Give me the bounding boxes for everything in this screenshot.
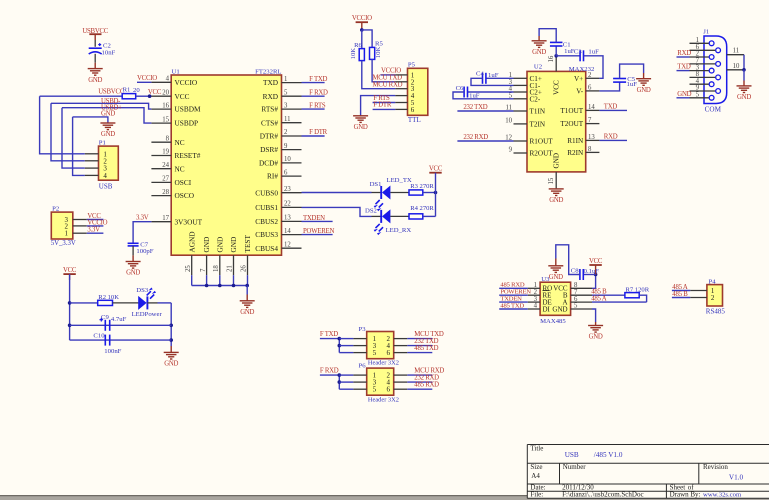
P2 pin 1 3.3V [73,232,87,234]
svg-text:C10: C10 [93,333,105,340]
U3 pin 6 A [571,301,592,303]
svg-text:6: 6 [387,349,391,357]
svg-text:10: 10 [505,117,512,124]
svg-text:7: 7 [200,268,207,272]
U1 pin 21 GND [233,255,235,275]
svg-text:2: 2 [284,129,288,136]
svg-text:C4: C4 [476,71,484,78]
svg-text:USBDP: USBDP [175,119,199,128]
ground [636,79,651,86]
svg-text:VCCIO: VCCIO [175,78,198,87]
svg-text:R1OUT: R1OUT [530,138,554,146]
svg-text:CBUS2: CBUS2 [255,217,278,226]
svg-text:4.7uF: 4.7uF [111,316,127,323]
U1 pin 19 RESET# [151,155,171,157]
net label VCCIO at U1 pin 4 [137,81,151,83]
svg-text:6: 6 [284,169,288,176]
net label VCCIO [87,225,104,227]
svg-text:/485 V1.0: /485 V1.0 [594,451,623,459]
svg-text:USBVCC: USBVCC [98,88,125,95]
svg-text:C9: C9 [101,314,109,321]
svg-text:RTS#: RTS# [261,105,278,114]
net label 485 TXD [499,308,528,310]
svg-text:V+: V+ [574,75,583,83]
svg-text:T1IN: T1IN [530,108,546,116]
svg-text:LED_TX: LED_TX [387,177,412,184]
svg-text:1uF: 1uF [469,92,480,99]
svg-text:R1IN: R1IN [567,137,584,145]
svg-text:VCC: VCC [553,80,561,95]
wire [390,215,409,217]
net label 232_TXD at U2 pin 11 [457,110,513,112]
svg-text:J1: J1 [703,28,709,35]
svg-text:GND: GND [532,49,546,56]
svg-text:23: 23 [284,186,291,193]
net label RXD at J1 pin 2 [677,56,690,58]
svg-text:24: 24 [162,162,169,169]
svg-text:GND: GND [552,305,567,313]
capacitor C10 100nF [105,335,109,346]
U1 pin 25 AGND [191,255,193,275]
net label F_RTS at U1 [302,108,325,110]
svg-text:10nF: 10nF [102,50,116,57]
svg-text:1: 1 [284,76,287,83]
svg-text:GND: GND [589,334,603,341]
connector P5 TTL body [408,68,428,115]
svg-text:8: 8 [166,135,170,142]
svg-text:DTR#: DTR# [260,132,279,141]
svg-text:USB: USB [565,451,579,459]
wire VCC rail to DS2 row [435,173,437,217]
J1 pin 5 [690,97,710,99]
U3 pin 1 RO [528,287,540,289]
svg-text:RXD: RXD [263,92,278,101]
P1 pin 2 [85,160,99,162]
net label 232_RXD at U2 pin 12 [457,140,513,142]
svg-text:6: 6 [588,84,592,91]
connector P3 header 3X2 body [367,332,394,359]
svg-text:Header 3X2: Header 3X2 [368,396,399,403]
U2 pin 7 T2OUT [586,123,600,125]
svg-text:GND: GND [677,91,691,98]
P6 pin 3 [339,381,353,383]
svg-text:GND: GND [202,237,211,253]
svg-text:28: 28 [162,189,169,196]
svg-text:F RXD: F RXD [320,367,339,374]
U2 pin 14 T1OUT [586,109,600,111]
U2 pin 13 R1IN [586,139,600,141]
svg-text:P6: P6 [359,363,367,370]
wire R5 to MCU_TXD row [372,59,395,81]
J1 pin 8 [690,76,716,78]
svg-text:VCC: VCC [589,258,603,265]
svg-text:13: 13 [284,215,291,222]
P3 pin 6 [394,352,408,354]
J1 pin 7 [690,63,716,65]
net label RXD at U2 pin 13 [599,139,627,141]
svg-text:8: 8 [588,146,592,153]
net label MCU TXD [407,338,432,340]
junction [148,94,152,98]
net label F_DTR at P5 pin6 [373,108,396,110]
svg-text:11: 11 [284,116,291,123]
svg-text:TTL: TTL [408,116,421,124]
U3 pin 5 GND [571,308,592,310]
svg-text:DS3: DS3 [136,287,149,294]
svg-text:www.32s.com: www.32s.com [703,492,742,499]
svg-text:GND: GND [240,309,254,316]
svg-text:CUBS1: CUBS1 [255,203,278,212]
U1 pin 14 CBUS3 [282,234,302,236]
U1 pin 24 NC [151,168,171,170]
svg-text:20: 20 [133,87,140,94]
svg-text:100nF: 100nF [104,348,121,355]
wire P1 pin4 to GND [73,117,85,175]
net label TXD at U2 pin 14 [599,109,627,111]
svg-text:16: 16 [162,102,169,109]
title block [527,445,769,499]
P5 pin 1 [395,74,407,76]
wire rail [338,375,340,389]
P2 pin 2 VCCIO [73,225,87,227]
wire U3 pin 8 to VCC [592,275,596,289]
svg-text:USBDM: USBDM [175,105,201,114]
P1 pin 3 [85,167,99,169]
P3 pin 3 [339,345,353,347]
power port VCCIO [356,21,368,23]
U1 pin 3 RTS# [282,108,302,110]
U1 pin 26 TEST [247,255,249,275]
wire to R6 [361,30,363,49]
wire U1 ground rail [191,275,193,285]
wire [423,215,436,217]
LED DS3 LEDPower [138,296,146,310]
svg-text:232 RXD: 232 RXD [463,134,488,141]
J1 pin 4 [690,83,710,85]
svg-text:GND: GND [126,270,140,277]
svg-text:R1: R1 [123,86,131,93]
svg-text:GND: GND [101,111,115,118]
power port VCC [429,172,441,174]
wire R6 to MCU_RXD row [362,61,396,89]
U3 pin 3 DE [528,301,540,303]
svg-text:17: 17 [162,215,169,222]
U1 pin 8 NC [151,141,171,143]
J1 pin 9 [690,90,716,92]
svg-text:9: 9 [509,147,513,154]
svg-text:R3 270R: R3 270R [410,183,434,190]
svg-text:File:: File: [530,491,543,499]
wire [147,302,157,304]
svg-text:DI: DI [543,305,551,313]
wire P1 pin2 to USBD- [51,103,85,161]
U1 pin 4 VCCIO [151,81,171,83]
svg-text:2: 2 [588,72,592,79]
P6 pin 6 [394,388,408,390]
svg-text:Drawn By:: Drawn By: [670,491,701,499]
svg-text:VCCIO: VCCIO [137,75,157,82]
ground [588,326,603,333]
svg-text:4: 4 [534,303,538,310]
svg-text:1: 1 [65,230,69,238]
net label TXDEN at U1 [302,220,333,222]
svg-text:C2-: C2- [530,95,541,103]
svg-text:VCC: VCC [429,166,443,173]
net label F_RXD wire [320,374,339,376]
P4 pin 1 [690,290,707,292]
P5 pin 6 [395,108,407,110]
ground [353,116,368,123]
svg-text:25: 25 [185,265,192,272]
svg-text:485 A: 485 A [672,284,688,291]
svg-text:232 TXD: 232 TXD [414,338,438,345]
svg-text:11: 11 [733,48,740,55]
svg-text:P1: P1 [99,139,106,146]
svg-text:21: 21 [227,265,234,272]
svg-text:C3: C3 [574,48,582,55]
wire R7 to 485_A [639,295,646,302]
U1 pin 15 USBDP [151,122,171,124]
U2 pin 2 V+ [586,77,600,79]
wire [390,192,409,194]
net label 485 B [672,297,690,299]
ground [126,262,141,269]
sheet edge band [0,496,769,500]
ground [240,301,255,308]
P1 pin 4 [85,174,99,176]
svg-text:F:\dianzi\..\usb2com.SchDoc: F:\dianzi\..\usb2com.SchDoc [562,491,643,499]
svg-text:OSCI: OSCI [175,178,192,187]
svg-text:5: 5 [373,349,377,357]
U3 pin 8 VCC [571,287,592,289]
svg-text:232 RXD: 232 RXD [414,374,439,381]
svg-text:10K: 10K [350,48,357,60]
junction at U2 pin 16 [554,54,558,58]
U3 pin 4 DI [528,308,540,310]
svg-text:15: 15 [162,116,169,123]
ground [164,352,179,359]
svg-text:5: 5 [284,89,288,96]
svg-text:T1OUT: T1OUT [560,107,583,115]
svg-text:232 TXD: 232 TXD [463,104,487,111]
svg-text:VCC: VCC [148,89,162,96]
svg-text:GND: GND [549,274,563,281]
U3 pin 7 B [571,294,592,296]
connector P6 header 3X2 body [367,368,394,395]
J1 pin 10 [727,69,744,71]
U1 FT232RL IC body [171,75,281,255]
svg-text:Revision: Revision [703,463,728,471]
svg-text:T2OUT: T2OUT [560,120,583,128]
P2 pin 3 VCC [73,219,87,221]
U1 pin 9 DSR# [282,149,302,151]
U1 pin 18 GND [219,255,221,275]
J1 pin 2 [690,56,710,58]
net label F_RTS at P5 pin5 [373,102,396,104]
capacitor C6 1uF loop pins 4-5 [467,91,513,93]
svg-text:CBUS3: CBUS3 [255,230,278,239]
capacitor C4 1uF loop pins 1-3 [486,77,514,79]
P6 pin 1 [339,374,353,376]
svg-text:V1.0: V1.0 [729,474,744,482]
net label POWEREN at U1 [302,234,333,236]
net label F_TXD wire [320,338,339,340]
U1 pin 27 OSCI [151,181,171,183]
net label MCU RXD [407,374,432,376]
P3 pin 1 [339,338,353,340]
svg-text:C8: C8 [571,267,579,274]
ground [548,266,563,273]
capacitor C9 4.7uF [105,320,109,331]
svg-text:C2: C2 [103,42,111,49]
U1 pin 20 VCC [151,95,171,97]
svg-text:12: 12 [284,241,291,248]
svg-text:LEDPower: LEDPower [132,311,163,318]
J1 pin 1 [690,42,710,44]
svg-text:GND: GND [101,131,115,138]
U2 pin 1 C1+ [514,77,528,79]
svg-text:U1: U1 [172,69,180,76]
net USBD+ wire to U1 pin 15 [62,108,151,123]
U1 pin 2 DTR# [282,135,302,137]
U1 pin 23 CUBS0 [282,192,302,194]
svg-text:485 TXD: 485 TXD [414,345,438,352]
P4 pin 2 [690,297,707,299]
resistor R4 270R [409,214,423,219]
U1 pin 7 GND [206,255,208,275]
capacitor C3 1uF VCC to V+ [556,55,580,57]
svg-text:3: 3 [284,102,288,109]
net USBD- wire to U1 pin 16 [51,103,151,109]
svg-text:USB: USB [99,183,113,191]
svg-text:6: 6 [387,386,391,394]
svg-text:R2OUT: R2OUT [530,150,554,158]
net label TXD at J1 pin 3 [677,70,690,72]
svg-text:COM: COM [705,105,722,113]
U3 MAX485 IC body [540,282,571,315]
svg-text:RS485: RS485 [706,307,726,315]
svg-text:TXD: TXD [604,103,618,110]
P3 pin 5 [339,352,353,354]
svg-text:Number: Number [563,463,587,471]
P5 pin 5 [395,102,407,104]
svg-text:C6: C6 [456,85,464,92]
U1 pin 28 OSCO [151,195,171,197]
svg-text:P5: P5 [408,62,416,69]
net label VCC [87,219,104,221]
svg-text:1uF: 1uF [588,49,599,56]
svg-text:1: 1 [696,37,699,44]
J1 pin 3 [690,70,710,72]
svg-text:2: 2 [711,294,715,302]
ground [549,189,564,196]
svg-text:CUBS0: CUBS0 [255,188,278,197]
U2 pin 11 T1IN [514,110,528,112]
svg-text:10: 10 [733,63,740,70]
J1 pin 11 [727,54,744,56]
wire C9 row [70,324,172,326]
svg-text:5V_3.3V: 5V_3.3V [51,240,76,247]
svg-text:U2: U2 [534,63,542,70]
svg-text:P3: P3 [359,326,367,333]
svg-text:AGND: AGND [187,231,196,252]
ground [737,86,752,93]
svg-text:3V3OUT: 3V3OUT [175,217,203,226]
wire [94,34,96,40]
svg-text:3.3V: 3.3V [136,215,149,222]
net USBVCC wire to R1 [40,95,123,97]
P6 pin 5 [339,388,353,390]
svg-text:22: 22 [284,201,291,208]
capacitor C5 1uF V- to GND [599,82,619,91]
svg-text:0.1uF: 0.1uF [584,268,600,275]
svg-text:GND: GND [88,77,102,84]
svg-text:18: 18 [213,265,220,272]
svg-text:FT232RL: FT232RL [255,69,281,76]
svg-text:485 A: 485 A [591,295,607,302]
svg-text:VCC: VCC [175,92,190,101]
net label POWEREN [499,294,528,296]
net label F_RXD at U1 [302,95,325,97]
U1 pin 5 RXD [282,95,302,97]
svg-text:20: 20 [162,89,169,96]
resistor R7 120R [625,293,639,298]
svg-text:GND: GND [637,87,651,94]
svg-text:14: 14 [588,104,595,111]
svg-text:R4 270R: R4 270R [410,205,434,212]
svg-text:R2IN: R2IN [567,149,584,157]
svg-text:P2: P2 [52,206,59,213]
net label 3.3V [87,232,104,234]
U1 pin 13 CBUS2 [282,220,302,222]
ground [88,69,103,76]
P6 pin 4 [394,381,408,383]
net label TXDEN [499,301,528,303]
svg-text:14: 14 [284,228,291,235]
svg-text:100pF: 100pF [136,248,153,255]
resistor R5 10K [370,47,375,59]
svg-text:5: 5 [696,92,700,99]
svg-text:16: 16 [548,55,555,62]
U2 pin 4 C2+ [514,91,528,93]
P3 pin 4 [394,345,408,347]
wire GND to P5 pin4 [361,96,396,116]
U1 pin 1 TXD [282,82,302,84]
connector P4 RS485 body [707,285,723,306]
P5 pin 2 [395,81,407,83]
svg-text:DCD#: DCD# [259,159,278,168]
svg-text:5: 5 [574,303,578,310]
U1 pin 17 3V3OUT [151,221,171,223]
power port VCC [63,273,75,275]
net label 485 RXD [407,388,432,390]
wire [132,246,134,255]
U1 pin 16 USBDM [151,108,171,110]
svg-text:GND: GND [549,197,563,204]
U2 pin 12 R1OUT [514,140,528,142]
wire P1 pin1 to USBVCC [40,96,85,154]
wire C10 row [70,339,172,341]
U2 pin 3 C1- [514,84,528,86]
wire [423,192,436,194]
svg-text:GND: GND [229,237,238,253]
svg-text:R6: R6 [354,42,362,49]
U2 pin 6 V- [586,90,600,92]
svg-text:3.3V: 3.3V [87,227,100,234]
P5 pin 4 [395,95,407,97]
net label 485_B at U3 pin 7 [592,294,625,296]
wire to R5 [362,30,372,48]
